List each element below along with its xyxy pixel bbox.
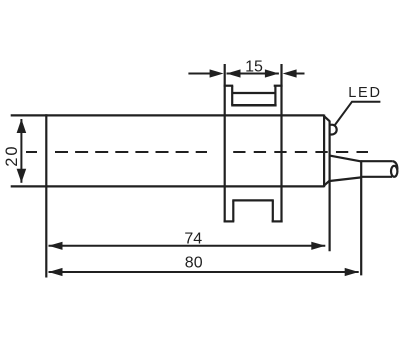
svg-text:15: 15 xyxy=(245,59,263,76)
svg-text:74: 74 xyxy=(184,230,202,247)
svg-text:LED: LED xyxy=(348,85,382,101)
svg-text:20: 20 xyxy=(3,144,21,166)
svg-text:80: 80 xyxy=(185,255,203,272)
